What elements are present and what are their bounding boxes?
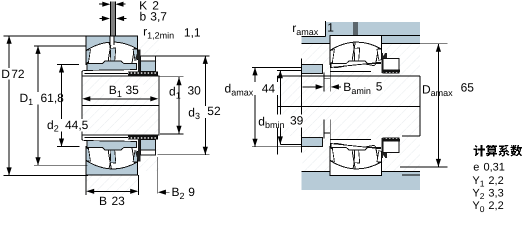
svg-text:e: e (473, 161, 479, 173)
svg-text:5: 5 (376, 80, 383, 94)
svg-text:2,2: 2,2 (488, 200, 503, 212)
svg-text:b: b (140, 10, 147, 24)
svg-text:0,31: 0,31 (484, 161, 505, 173)
svg-text:B2: B2 (172, 185, 185, 201)
svg-text:B: B (99, 194, 107, 208)
svg-text:Y0: Y0 (472, 200, 484, 214)
svg-text:61,8: 61,8 (41, 91, 65, 105)
svg-text:52: 52 (207, 104, 221, 118)
svg-text:r1,2min: r1,2min (143, 25, 174, 41)
svg-text:23: 23 (112, 194, 126, 208)
svg-text:35: 35 (126, 83, 140, 97)
svg-text:3,3: 3,3 (488, 187, 503, 199)
svg-text:44,5: 44,5 (65, 118, 89, 132)
svg-text:72: 72 (11, 67, 25, 81)
svg-text:D: D (1, 67, 10, 81)
svg-text:44: 44 (262, 82, 276, 96)
svg-text:1: 1 (327, 21, 334, 35)
svg-text:30: 30 (188, 84, 202, 98)
svg-text:Damax: Damax (422, 82, 453, 98)
svg-text:3,7: 3,7 (150, 10, 167, 24)
svg-text:39: 39 (290, 114, 304, 128)
svg-text:9: 9 (188, 185, 195, 199)
svg-text:1,1: 1,1 (184, 26, 201, 40)
svg-text:65: 65 (461, 81, 475, 95)
svg-text:2,2: 2,2 (488, 175, 503, 187)
